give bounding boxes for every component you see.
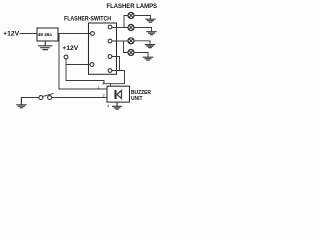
buzzer switch SW (open) [39, 94, 53, 100]
ground lamp 1 [146, 19, 155, 22]
switch contact 1 [108, 25, 112, 29]
wire contact 3 jog down [112, 57, 120, 71]
ground lamp 3 [145, 45, 154, 48]
svg-text:4: 4 [107, 104, 109, 108]
wire 49a output to switch pole 1 [58, 33, 91, 35]
wire contact 4 to buzzer drop [111, 71, 125, 84]
wire contact 2 to lamps 3-4 [112, 40, 128, 42]
svg-text:+12V: +12V [3, 30, 20, 37]
wire lamp 2 to ground [134, 28, 152, 32]
svg-text:49a: 49a [44, 32, 52, 38]
buzzer unit box [107, 86, 130, 102]
wire lamp 1 branch [124, 16, 128, 28]
svg-text:FLASHER-SWITCH: FLASHER-SWITCH [64, 16, 111, 23]
ground below buzzer [113, 102, 122, 109]
lamp L2 [128, 25, 134, 31]
svg-text:2: 2 [103, 93, 105, 97]
wire lamp 1 to ground [134, 16, 151, 19]
ground lamp 2 [147, 32, 156, 35]
svg-text:1: 1 [98, 85, 100, 89]
lamp L4 [128, 50, 134, 56]
ground bottom-left [17, 98, 26, 108]
buzzer element (cone triangle) [117, 91, 122, 99]
switch pole 1 [91, 32, 95, 36]
wire lamp 4 to ground [134, 53, 148, 57]
switch contact 2 [108, 39, 112, 43]
wire contact 1 to lamps 1-2 [112, 27, 128, 29]
wire +12V terminal to pole 2 [66, 59, 90, 65]
wire switch to buzzer terminal 2 [52, 97, 108, 99]
switch contact 4 [108, 69, 112, 73]
ground lamp 4 [143, 57, 152, 60]
lamp L3 [128, 38, 134, 44]
wire lamp 4 branch [124, 41, 129, 53]
svg-text:+12V: +12V [62, 45, 79, 52]
svg-text:FLASHER LAMPS: FLASHER LAMPS [107, 3, 158, 10]
buzzer element (speaker bar) [115, 90, 117, 99]
svg-text:49: 49 [38, 32, 44, 38]
switch pole 2 [90, 63, 94, 67]
lamp L1 [128, 13, 134, 19]
switch contact 3 [108, 55, 112, 59]
ground below flasher unit [39, 41, 52, 50]
terminal circle under +12V [64, 55, 68, 59]
wire lamp 3 to ground [134, 41, 150, 44]
flasher unit FU (49 / 49a) [37, 28, 58, 41]
wire ground to buzzer switch [21, 97, 39, 99]
svg-text:UNIT: UNIT [131, 96, 143, 102]
wire +12V branch down to buzzer top [66, 65, 111, 87]
svg-text:3: 3 [102, 82, 104, 86]
flasher switch box [89, 23, 117, 74]
wire +12V to flasher unit [20, 33, 37, 35]
wire 49a branch down to buzzer terminal 1 [59, 34, 107, 90]
